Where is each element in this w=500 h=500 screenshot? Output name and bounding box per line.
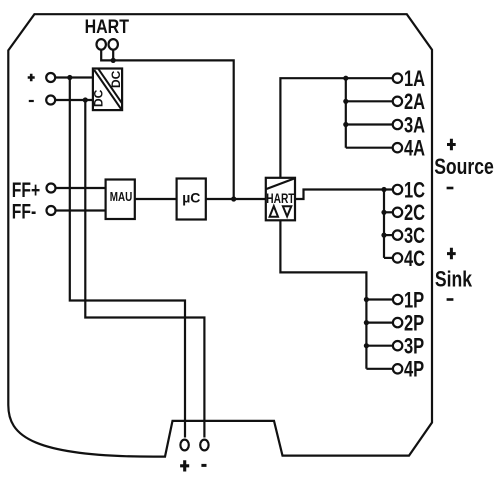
label + (Source) bbox=[447, 139, 456, 151]
terminal circle FF+ bbox=[47, 184, 56, 193]
svg-text:1A: 1A bbox=[404, 67, 425, 92]
wire: C bus bbox=[383, 190, 385, 258]
terminal circle 3P bbox=[393, 341, 402, 350]
wire: - bus down to bottom - terminal bbox=[85, 100, 204, 438]
terminal circle + (left top) bbox=[46, 73, 55, 82]
wire: HART modem bottom to P bus bbox=[280, 220, 366, 368]
label - (left top terminal) bbox=[29, 100, 34, 102]
terminal circle 1P bbox=[393, 295, 402, 304]
junction dot A bus 1A bbox=[343, 76, 348, 81]
label - (Sink) bbox=[447, 298, 454, 301]
terminal circle 4P bbox=[393, 364, 402, 373]
label - (Source) bbox=[447, 187, 454, 190]
junction dot A bus 2A bbox=[343, 99, 348, 104]
wire: FF+ to MAU bbox=[56, 187, 106, 189]
svg-text:2P: 2P bbox=[404, 311, 424, 336]
svg-text:HART: HART bbox=[85, 16, 129, 38]
HART terminal circle 2 bbox=[109, 39, 118, 50]
svg-text:Sink: Sink bbox=[435, 268, 473, 292]
wire: + bus down to bottom + terminal bbox=[70, 78, 185, 438]
svg-text:1P: 1P bbox=[404, 288, 424, 313]
svg-text:µC: µC bbox=[182, 189, 200, 205]
junction dot P bus 2P bbox=[364, 320, 369, 325]
junction dot C bus 3C bbox=[381, 233, 386, 238]
wire: + terminal to DC/DC bbox=[55, 76, 93, 78]
wire: 4A stub bbox=[346, 147, 393, 149]
bottom terminal circle + bbox=[180, 440, 188, 451]
svg-text:Source: Source bbox=[434, 155, 494, 179]
wire: HART terminal 2 drop bbox=[112, 49, 114, 61]
svg-text:DC: DC bbox=[109, 70, 123, 88]
wire: 4P stub bbox=[366, 368, 393, 370]
terminal circle 3C bbox=[393, 230, 402, 239]
junction dot at - branch bbox=[83, 97, 88, 102]
svg-text:FF+: FF+ bbox=[12, 178, 40, 202]
terminal circle - (left top) bbox=[46, 96, 55, 105]
wire: 1P stub bbox=[366, 298, 393, 300]
wire: FF- to MAU bbox=[56, 209, 106, 211]
label + (left top terminal) bbox=[28, 74, 35, 82]
wire: uC to HART modem bbox=[206, 198, 266, 200]
svg-text:4A: 4A bbox=[404, 136, 425, 161]
module outline bbox=[8, 14, 432, 456]
down triangle bbox=[283, 206, 291, 216]
wire: MAU to uC bbox=[135, 198, 177, 200]
wire: 3P stub bbox=[366, 345, 393, 347]
junction dot below HART terminal 2 bbox=[111, 58, 116, 63]
terminal circle 3A bbox=[393, 120, 402, 129]
bottom terminal circle - bbox=[200, 440, 208, 451]
wire: 2C stub bbox=[384, 211, 393, 213]
terminal circle 2P bbox=[393, 318, 402, 327]
svg-text:HART: HART bbox=[266, 190, 295, 206]
junction dot P bus 1P bbox=[364, 297, 369, 302]
label + (Sink) bbox=[447, 248, 456, 259]
wire: 2A stub bbox=[346, 100, 393, 102]
label + (bottom terminal) bbox=[180, 460, 189, 471]
junction dot C bus 2C bbox=[381, 210, 386, 215]
junction dot C bus 1C bbox=[381, 187, 386, 192]
svg-text:MAU: MAU bbox=[110, 191, 133, 204]
svg-text:2A: 2A bbox=[404, 90, 425, 115]
terminal circle 4C bbox=[393, 253, 402, 262]
svg-text:1C: 1C bbox=[404, 178, 425, 203]
svg-text:4P: 4P bbox=[404, 357, 424, 382]
wire: HART terminal 1 down and across to centre node bbox=[101, 49, 234, 199]
junction dot at + branch bbox=[67, 75, 72, 80]
terminal circle 4A bbox=[393, 143, 402, 152]
terminal circle FF- bbox=[47, 206, 56, 215]
HART modem block bbox=[266, 178, 295, 221]
wire: 2P stub bbox=[366, 322, 393, 324]
HART terminal circle 1 bbox=[97, 39, 106, 50]
wire: - terminal to DC/DC bbox=[55, 99, 93, 101]
wire: 4C stub bbox=[384, 257, 393, 259]
svg-text:3C: 3C bbox=[404, 224, 425, 249]
terminal circle 2C bbox=[393, 208, 402, 217]
terminal circle 1A bbox=[393, 74, 402, 83]
svg-text:3A: 3A bbox=[404, 113, 425, 138]
wire: HART modem right to 1C bbox=[295, 190, 393, 200]
wire: 3C stub bbox=[384, 234, 393, 236]
up triangle bbox=[270, 206, 278, 217]
svg-text:FF-: FF- bbox=[12, 199, 36, 223]
junction dot uC-HART node bbox=[231, 196, 236, 201]
terminal circle 2A bbox=[393, 97, 402, 106]
MAU block bbox=[106, 180, 135, 220]
wire: A bus bbox=[345, 78, 347, 148]
wire: 1A row to HART modem top bbox=[280, 78, 393, 178]
label - (bottom terminal) bbox=[201, 464, 206, 467]
uC block bbox=[177, 179, 206, 220]
svg-text:4C: 4C bbox=[404, 247, 425, 272]
svg-text:DC: DC bbox=[91, 89, 105, 107]
wire: 3A stub bbox=[346, 123, 393, 125]
junction dot A bus 3A bbox=[343, 122, 348, 127]
svg-text:2C: 2C bbox=[404, 201, 425, 226]
DC/DC converter U1 bbox=[93, 69, 122, 111]
terminal circle 1C bbox=[393, 185, 402, 194]
junction dot P bus 3P bbox=[364, 343, 369, 348]
svg-text:3P: 3P bbox=[404, 334, 424, 359]
